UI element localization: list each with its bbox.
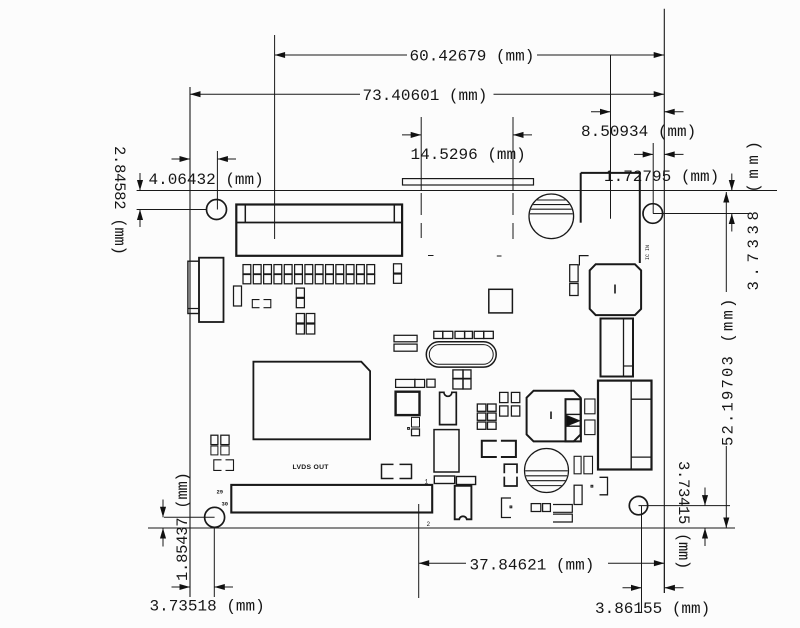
resistor R1 bracket pads xyxy=(252,300,270,308)
node solder dot 3 xyxy=(510,506,512,508)
connector CN2 strip divider xyxy=(188,308,199,310)
node mounting hole bottom-left xyxy=(205,507,225,527)
capacitor C32 pads xyxy=(585,399,595,414)
node centerline y=256 dashes xyxy=(281,255,287,257)
node centerline x=421 dashes xyxy=(420,193,422,215)
svg-text:1.72795 (mm): 1.72795 (mm) xyxy=(604,168,719,186)
buzzer BZ1 body xyxy=(529,194,574,239)
connector CN1 top FFC outer xyxy=(236,205,402,256)
capacitor C31 stack xyxy=(570,265,578,282)
connector CN1 right key xyxy=(393,205,395,223)
node dim 3.73518 arrows xyxy=(172,586,191,588)
svg-text:LVDS OUT: LVDS OUT xyxy=(293,464,330,471)
node dim 3.73415 arrows xyxy=(704,488,706,506)
node dim 52.19703 line+arrows xyxy=(725,192,727,292)
node centerline x=513 dashes xyxy=(512,193,514,215)
connector CN1 inner shelf line xyxy=(236,222,402,224)
node mounting hole bottom-right xyxy=(629,496,647,514)
diode D1 cathode mark xyxy=(567,415,580,426)
connector CN4 rib top xyxy=(631,398,651,400)
op-amp U1 main controller IC xyxy=(253,362,370,440)
connector J1 DC jack right side xyxy=(639,173,641,263)
node dim 3.86155 extension xyxy=(641,506,643,612)
transistor Q1 pin1 tick xyxy=(614,285,616,294)
node dim 3.73518 extension xyxy=(213,528,215,597)
connector J1 DC jack top xyxy=(581,172,640,174)
node dim 37.84621 line+arrows xyxy=(419,562,466,564)
capacitor C36 pads open xyxy=(553,505,572,523)
svg-text:3.86155 (mm): 3.86155 (mm) xyxy=(595,600,710,618)
node dim 8.50934 extension xyxy=(610,56,612,219)
node dim 60.42679 extension line xyxy=(274,35,276,239)
capacitor C10 electrolytic xyxy=(525,449,569,493)
svg-text:3.73518 (mm): 3.73518 (mm) xyxy=(150,598,265,616)
transistor Q2 notched body xyxy=(440,392,457,424)
connector J3 top edge bar xyxy=(403,179,534,185)
capacitor C20 pair xyxy=(394,264,402,273)
svg-text:8.50934 (mm): 8.50934 (mm) xyxy=(581,123,696,141)
resistor R13 bracket pads xyxy=(382,464,412,478)
connector CN4 body xyxy=(598,381,652,470)
connector CN1 left key xyxy=(244,205,246,223)
node dim 3.7338 extension xyxy=(653,213,749,215)
node dim 2.84582 arrows xyxy=(139,173,141,191)
svg-text:60.42679 (mm): 60.42679 (mm) xyxy=(410,48,535,66)
capacitor C26 pads xyxy=(396,379,415,387)
capacitor bank C-row under CN1 xyxy=(243,265,251,274)
node dim 60.42679 line+arrows xyxy=(275,54,407,56)
node dim 73.40601 line+arrows xyxy=(190,93,360,95)
node mounting hole top-left xyxy=(207,200,227,220)
node dim 1.85437 extension xyxy=(164,516,215,518)
svg-text:3.73415 (mm): 3.73415 (mm) xyxy=(674,461,692,569)
capacitor C28 grid xyxy=(477,404,486,411)
resistor R7 thick square xyxy=(396,392,420,415)
svg-text:73.40601 (mm): 73.40601 (mm) xyxy=(363,87,488,105)
diode D1 band bottom xyxy=(566,425,581,427)
svg-text:52.19703 (mm): 52.19703 (mm) xyxy=(719,296,737,446)
capacitor C37 quad xyxy=(211,435,218,444)
svg-text:30: 30 xyxy=(222,501,229,508)
resistor R8 bracket pair xyxy=(482,441,516,457)
crystal Y1 inner xyxy=(429,345,493,365)
capacitor C38 pad pair xyxy=(434,476,454,484)
capacitor C30 square xyxy=(489,289,513,313)
resistor R12 bracket pads xyxy=(214,460,234,471)
node dim 1.85437 arrows xyxy=(162,500,164,518)
capacitor C23 quad xyxy=(296,314,304,324)
node mounting hole top-right xyxy=(643,204,663,224)
connector CN2 body xyxy=(199,258,224,322)
node solder dot 2 xyxy=(591,485,593,487)
inductor L1 tick xyxy=(550,412,552,420)
resistor R9 brackets xyxy=(504,464,517,486)
resistor row R2-R4 pairs xyxy=(434,331,443,338)
svg-text:37.84621 (mm): 37.84621 (mm) xyxy=(470,556,595,574)
resistor R10 bracket xyxy=(502,498,512,518)
capacitor C24 pair wide xyxy=(394,335,417,342)
transistor Q1 tab xyxy=(601,319,634,377)
connector CN4 rib bottom xyxy=(631,456,651,458)
node dim 14.5296 arrows xyxy=(402,134,421,136)
transistor Q1 power pack body xyxy=(590,264,641,315)
capacitor C29 pairs xyxy=(500,392,508,402)
crystal Y1 outer xyxy=(426,342,496,367)
svg-text:4.06432 (mm): 4.06432 (mm) xyxy=(149,171,264,189)
connector CN2 side strip xyxy=(188,261,199,313)
svg-text:1: 1 xyxy=(425,479,429,486)
transistor Q3 notched body xyxy=(455,486,472,520)
capacitor C27 pads xyxy=(412,417,420,427)
node dim 1.72795 arrows xyxy=(634,153,653,155)
capacitor C35 pads xyxy=(531,504,541,512)
node dim 37.84621 extensions xyxy=(418,504,420,598)
diode D1 body xyxy=(566,399,581,441)
svg-text:29: 29 xyxy=(217,489,224,496)
capacitor C33 pads xyxy=(574,456,581,474)
node dim 4.06432 arrows xyxy=(172,158,191,160)
wire board left edge with extension xyxy=(189,87,191,597)
connector CN4 inner wall xyxy=(630,381,632,470)
transistor Q1 tab notch xyxy=(624,365,634,367)
capacitor C21 xyxy=(234,286,242,306)
svg-text:1.85437 (mm): 1.85437 (mm) xyxy=(174,472,192,581)
inductor L1 body xyxy=(527,391,581,442)
capacitor C34 pad xyxy=(574,485,582,504)
svg-text:2.84582 (mm): 2.84582 (mm) xyxy=(110,146,128,255)
node dim 8.50934 arrows xyxy=(591,111,611,113)
node dim 3.86155 arrows xyxy=(623,587,642,589)
wire board top edge with extension xyxy=(137,190,777,192)
diode D1 band top xyxy=(566,413,581,415)
node dim 3.73415 extension xyxy=(639,505,731,507)
node dim 14.5296 extensions xyxy=(420,117,422,191)
wire jack trace L xyxy=(579,256,588,266)
node dim 3.7338 arrows xyxy=(731,174,733,191)
connector CN3 LVDS output xyxy=(231,485,432,513)
wire board bottom edge with extension xyxy=(148,527,735,529)
capacitor C11 tall body xyxy=(434,430,459,472)
node dim 2.84582 extensions xyxy=(137,209,207,211)
capacitor C22 stack xyxy=(296,288,304,297)
svg-text:3.7338 (mm): 3.7338 (mm) xyxy=(745,136,763,290)
wire board right edge with extension xyxy=(663,9,665,593)
node dim 4.06432 extension xyxy=(216,151,218,210)
connector J1 DC jack left side xyxy=(580,173,582,223)
svg-text:14.5296 (mm): 14.5296 (mm) xyxy=(411,146,526,164)
resistor R11 bracket xyxy=(600,477,608,495)
node solder dot xyxy=(408,428,410,430)
svg-text:2: 2 xyxy=(427,521,431,528)
transistor Q1 tab inner line xyxy=(623,319,625,377)
node dim 1.72795 extension xyxy=(652,143,654,214)
capacitor C25 under crystal xyxy=(453,370,463,379)
svg-text:IC IN: IC IN xyxy=(645,245,651,260)
